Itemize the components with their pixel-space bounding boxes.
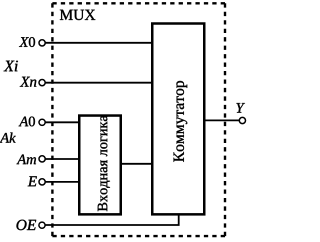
- label E: [28, 176, 37, 186]
- label U2 Коммутатор: [174, 81, 188, 162]
- pin circle OE: [39, 222, 45, 228]
- wire A0: [45, 121, 80, 123]
- label Xn: [20, 77, 37, 87]
- pin circle A0: [39, 119, 45, 125]
- dashed MUX boundary bottom side: [52, 235, 225, 237]
- pin circle X0: [39, 40, 45, 46]
- label Y: [236, 103, 245, 112]
- pin circle Am: [39, 156, 45, 162]
- wire Am: [45, 158, 80, 160]
- pin circle Xn: [39, 80, 45, 86]
- pin circle Y: [239, 117, 245, 123]
- wire Y: [204, 119, 239, 121]
- dashed MUX boundary right side: [224, 3, 226, 236]
- label Am: [17, 155, 37, 165]
- wire OE: [45, 215, 179, 226]
- wire U1 to U2: [120, 163, 152, 165]
- dashed MUX boundary top side: [52, 2, 225, 4]
- dashed MUX boundary left side: [51, 3, 53, 236]
- label A0: [19, 117, 35, 127]
- pin circle E: [39, 179, 45, 185]
- label U1 Входная логика: [98, 115, 110, 211]
- block U2 Коммутатор: [152, 24, 204, 215]
- wire Xn: [45, 82, 152, 84]
- wire X0: [45, 42, 152, 44]
- wire E: [45, 181, 80, 183]
- label Ak: [0, 133, 16, 143]
- block U1 Входная логика: [79, 116, 121, 215]
- label Xi: [4, 61, 18, 72]
- label MUX: [60, 10, 95, 20]
- label OE: [17, 220, 37, 230]
- label X0: [19, 37, 35, 47]
